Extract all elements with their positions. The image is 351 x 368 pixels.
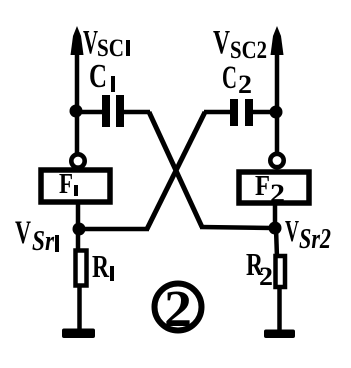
wire node VSR2 to R2 — [276, 228, 277, 258]
capacitor C2 — [230, 99, 253, 126]
resistor R2 — [276, 256, 286, 287]
label F2 — [255, 170, 285, 208]
svg-text:Sr2: Sr2 — [299, 224, 331, 255]
label F1 — [59, 169, 78, 200]
label VSC1 — [83, 24, 130, 62]
label VSR1 — [15, 215, 59, 257]
wire C1 right — [124, 110, 150, 115]
ground left — [62, 329, 95, 339]
bubble on F1 — [71, 154, 84, 167]
svg-text:2: 2 — [270, 179, 285, 208]
ground right — [264, 330, 295, 339]
svg-text:F: F — [59, 169, 73, 200]
label C1 — [89, 58, 115, 95]
label VSR2 — [285, 213, 331, 255]
power arrow VSC1 — [71, 26, 84, 55]
label R2 — [246, 246, 273, 291]
svg-text:R: R — [92, 248, 110, 284]
svg-text:2: 2 — [238, 70, 252, 99]
figure marker circled 2 — [155, 281, 202, 338]
label VSC2 — [213, 24, 267, 64]
resistor R1 — [76, 251, 87, 286]
wire cross diagonal C1 to VSR2 — [149, 112, 202, 227]
power arrow VSC2 — [271, 26, 284, 55]
node junction right top — [270, 106, 283, 119]
wire node to C1 — [76, 110, 103, 115]
svg-text:C: C — [222, 60, 237, 96]
wire R2 to ground — [277, 287, 282, 333]
wire node VSR1 to R1 — [76, 229, 81, 252]
wire F2 to node VSR2 — [273, 204, 278, 231]
wire node to C2 — [253, 110, 276, 115]
svg-text:2: 2 — [259, 262, 273, 291]
wire right supply rail — [275, 32, 280, 156]
wire C2 left — [204, 110, 231, 115]
svg-text:V: V — [83, 24, 98, 61]
svg-text:Sr: Sr — [32, 225, 55, 257]
svg-text:V: V — [285, 213, 299, 248]
wire R1 to ground — [77, 286, 82, 331]
wire F1 to node VSR1 — [76, 204, 81, 231]
svg-text:C: C — [89, 58, 107, 95]
svg-text:V: V — [213, 24, 230, 61]
node junction left top — [70, 105, 83, 118]
svg-text:F: F — [255, 170, 270, 202]
svg-text:2: 2 — [164, 281, 192, 338]
wire cross diagonal C2 to VSR1 — [147, 112, 205, 229]
capacitor C1 — [102, 95, 124, 127]
wire left supply rail — [75, 32, 80, 156]
wire horizontal to node VSR1 — [82, 227, 149, 232]
wire horizontal to node VSR2 — [200, 227, 272, 228]
block F1 — [41, 170, 110, 202]
label R1 — [92, 248, 114, 284]
label C2 — [222, 60, 252, 99]
bubble on F2 — [270, 154, 283, 167]
node VSR2 — [269, 222, 282, 235]
block F2 — [239, 172, 309, 203]
node VSR1 — [73, 223, 86, 236]
svg-text:V: V — [15, 215, 31, 251]
